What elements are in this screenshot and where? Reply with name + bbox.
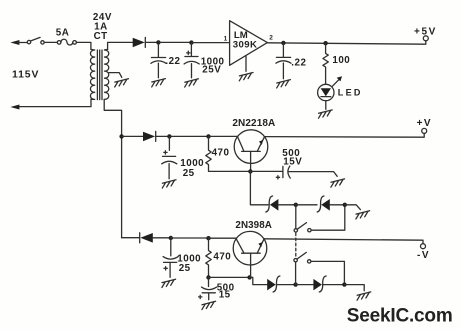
svg-text:.22: .22 [291, 58, 306, 69]
svg-text:+V: +V [417, 118, 433, 129]
svg-text:-V: -V [417, 250, 430, 261]
wire: +5V output rail [267, 41, 425, 44]
wire: center tap lead [109, 73, 122, 78]
node: -V rail junction 10 [169, 236, 173, 240]
svg-text:2: 2 [269, 35, 273, 42]
resistor R1 100 [323, 43, 328, 84]
wire: node9 to ground [345, 205, 361, 210]
capacitor C5 500/15V electrolytic [250, 166, 337, 179]
svg-text:25V: 25V [202, 65, 221, 76]
svg-text:470: 470 [213, 252, 231, 263]
zener Z4 [313, 276, 326, 292]
ground: C2 [185, 79, 199, 87]
wire: secondary bottom, long vertical to lower rails [104, 99, 121, 237]
svg-text:2N2218A: 2N2218A [232, 118, 275, 129]
wire: node2 to regulator input [191, 42, 229, 44]
zener Z1 [266, 196, 279, 212]
node: lower zener junction 15 [342, 282, 346, 286]
ground: C7 [202, 301, 216, 309]
svg-text:5A: 5A [56, 27, 70, 38]
diode D3 (-V rectifier, points left) [140, 233, 153, 243]
diode D2 (+V rectifier) [143, 131, 156, 141]
node: +V rail junction 6 [206, 134, 210, 138]
svg-text:15V: 15V [283, 157, 302, 168]
wire: S2a contact bypass to node9 [311, 207, 345, 230]
wire: Z2 to node9 [330, 204, 345, 206]
wire: node1 to node2 [158, 41, 191, 43]
wire: switch to fuse [44, 41, 57, 43]
node: zener row junction 8 [294, 203, 298, 207]
wire: node5 to node6 [169, 135, 208, 137]
svg-text:1: 1 [224, 36, 228, 43]
transformer T1 primary winding [90, 49, 94, 99]
transistor Q1 2N2218A [234, 130, 268, 172]
wire: node10 to node11 [171, 237, 209, 239]
wire: -V rail left segment [122, 237, 140, 239]
node: R3 bottom junction 12 [206, 275, 210, 279]
node: top rail junction 1 [156, 40, 160, 44]
wire: node8 to Z2 [296, 204, 317, 206]
label: 1000 25 (C6) [177, 254, 201, 275]
wire: U1 ground pin [245, 56, 247, 72]
transistor Q2 2N398A [233, 231, 267, 277]
svg-text:2N398A: 2N398A [235, 220, 272, 231]
svg-text:15: 15 [219, 290, 231, 301]
svg-text:470: 470 [212, 148, 230, 159]
svg-text:LED: LED [338, 88, 363, 98]
node: Q1 base junction 7 [248, 169, 252, 173]
svg-text:25: 25 [183, 168, 195, 179]
node: junction on left vertical feed [119, 134, 123, 138]
ground: C4 [162, 180, 176, 188]
transformer T1 secondary winding [104, 49, 109, 99]
zener Z2 [317, 196, 330, 212]
LED emission arrow [332, 76, 342, 86]
label: 500 15 (C7) [217, 282, 235, 300]
wire: node8 down to switch [295, 205, 297, 229]
capacitor C7 500/15 electrolytic [199, 277, 217, 299]
terminal: -V [417, 244, 430, 261]
wire: +V rail left segment [122, 135, 143, 137]
node: -V rail junction 11 [206, 236, 210, 240]
wire: D2 to node [156, 135, 170, 137]
switch S1 (line switch) [27, 37, 44, 44]
wire: fuse to transformer primary top [76, 42, 91, 49]
capacitor C3 .22 output [276, 43, 291, 79]
wire: node14 to Z4 [296, 284, 314, 286]
terminal: +V [417, 118, 433, 133]
ground: C5 [331, 179, 345, 187]
wire: D1 to node [145, 41, 158, 43]
diode D1 (top rectifier) [133, 37, 146, 47]
svg-text:100: 100 [332, 55, 350, 66]
ground: C1 [152, 79, 166, 87]
resistor R3 470 [206, 238, 211, 277]
svg-text:+5V: +5V [414, 26, 437, 37]
wire: Z4 to node15 [323, 284, 345, 286]
label: 500 15V (C5) [282, 148, 302, 168]
capacitor C2 1000/25V electrolytic [184, 43, 199, 78]
op-amp U1 LM309K regulator triangle [230, 21, 268, 66]
wire: AC line top lead with arrow [10, 40, 27, 45]
fuse F1 5A [57, 39, 76, 45]
wire: ganged switch dashed link [295, 233, 297, 257]
node: zener row junction 9 [343, 203, 347, 207]
ground: U1 [239, 73, 253, 81]
wire: primary bottom to AC line, arrow [10, 99, 91, 109]
wire: node12 to Q2 base node [209, 276, 250, 278]
transformer T1 core [97, 50, 102, 100]
wire: D3 to node10 [153, 237, 171, 239]
svg-text:CT: CT [94, 31, 108, 42]
ground: C3 [277, 80, 291, 88]
node: top rail junction 2 [189, 40, 193, 44]
ground: center tap [115, 79, 129, 87]
wire: +V rail to terminal [265, 133, 425, 137]
zener Z3 [267, 276, 280, 292]
wire: S2b contact bypass to node15 [311, 261, 345, 282]
node: output rail junction 3 [281, 41, 285, 45]
capacitor C1 .22 [151, 42, 166, 77]
wire: node13 step down to lower zener row [250, 277, 268, 284]
resistor R2 470 [206, 136, 251, 171]
wire: -V rail to terminal [264, 239, 423, 244]
capacitor C4 1000/25 electrolytic [162, 136, 177, 178]
wire: node14 up to switch S2b [295, 262, 297, 285]
switch S2a [294, 223, 311, 232]
node: Q2 base junction 13 [247, 275, 251, 279]
terminal: +5V [414, 26, 437, 40]
label: 1000 25 (C4) [180, 158, 204, 179]
label: 1000 25V (C2) [201, 57, 225, 76]
svg-text:309K: 309K [233, 39, 258, 50]
wire: Z3 to node14 [277, 284, 296, 286]
wire: node7 down to zener row [250, 171, 268, 204]
node: +V rail junction 5 [167, 134, 171, 138]
wire: Z1 to node8 [278, 204, 295, 206]
wire: node6 to Q1 collector [209, 135, 238, 137]
ground: upper zener row [356, 211, 370, 219]
LED indicator [318, 84, 334, 109]
capacitor C6 1000/25 electrolytic (negative) [163, 238, 178, 277]
svg-text:.22: .22 [165, 56, 180, 67]
node: output rail junction 4 [323, 41, 327, 45]
ground: lower zener row [357, 292, 371, 300]
node: lower zener junction 14 [293, 282, 297, 286]
wire: node15 to ground [344, 285, 364, 291]
label: 24V 1A CT [93, 12, 112, 42]
ground: LED [319, 110, 333, 118]
wire: node11 to Q2 collector [209, 237, 237, 239]
ground: C6 [162, 279, 176, 287]
switch S2b [294, 252, 311, 263]
svg-text:SeekIC.com: SeekIC.com [347, 306, 453, 327]
svg-text:25: 25 [179, 263, 191, 274]
svg-text:115V: 115V [12, 70, 39, 81]
wire: secondary top lead [105, 42, 133, 50]
